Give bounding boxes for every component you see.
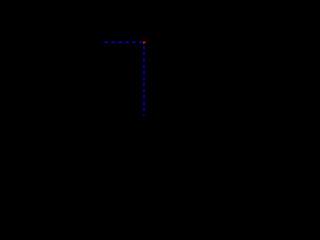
wire: horizontal dashed blue guide line (104, 41, 142, 43)
node A: red point marker at line intersection (143, 41, 146, 44)
wire: vertical dashed blue guide line (143, 46, 145, 116)
